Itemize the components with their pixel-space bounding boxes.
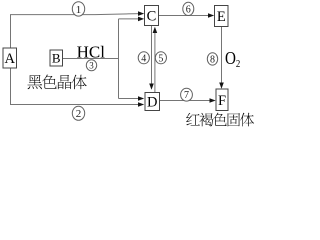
svg-text:D: D — [147, 95, 157, 111]
svg-text:HCl: HCl — [77, 42, 106, 61]
wire path3 branch to D — [119, 98, 141, 100]
node circle8 — [207, 53, 217, 65]
node circle5 — [155, 52, 166, 64]
node circle3 — [86, 60, 96, 71]
arrow into F left — [210, 98, 216, 103]
svg-text:3: 3 — [89, 61, 94, 71]
node circle6 — [183, 2, 194, 15]
wire path3 B+HCl trunk — [63, 58, 119, 60]
arrow into D upper — [138, 96, 144, 101]
node circle2 — [72, 106, 84, 120]
arrow into E — [208, 13, 214, 18]
svg-text:F: F — [218, 93, 226, 109]
wire path3 branch to C — [119, 18, 142, 20]
box C — [145, 6, 159, 26]
svg-text:7: 7 — [184, 90, 189, 101]
svg-text:4: 4 — [141, 53, 146, 64]
node circle1 — [72, 2, 84, 16]
arrow into F top — [219, 83, 224, 89]
wire path2 A-bottom to D — [11, 68, 141, 105]
box B — [50, 50, 63, 66]
box A — [3, 48, 17, 68]
svg-text:C: C — [147, 9, 157, 25]
box F — [216, 89, 228, 111]
svg-text:1: 1 — [76, 4, 82, 16]
svg-text:B: B — [52, 51, 61, 66]
arrow into D lower — [138, 102, 144, 107]
wire path8 E down to F — [221, 27, 223, 85]
wire path6 C to E — [159, 15, 211, 17]
svg-text:6: 6 — [186, 4, 191, 15]
svg-text:E: E — [217, 9, 226, 25]
arrow into C upper — [138, 11, 144, 16]
wire path4 C down to D — [151, 26, 153, 84]
label black-crystal — [28, 75, 87, 90]
node circle4 — [138, 52, 149, 64]
svg-text:8: 8 — [210, 54, 215, 65]
wire path5 D up to C — [154, 32, 156, 93]
arrow into D top — [149, 84, 154, 90]
wire path3 vertical riser — [118, 19, 120, 99]
arrow into C lower — [138, 17, 144, 22]
node circle7 — [181, 88, 193, 101]
box E — [215, 6, 229, 27]
label red-brown-solid — [186, 113, 254, 127]
svg-text:2: 2 — [76, 108, 82, 120]
wire path1 A-top to C — [11, 14, 142, 48]
svg-text:5: 5 — [158, 53, 163, 64]
svg-text:A: A — [5, 51, 16, 67]
box D — [145, 93, 160, 111]
wire path7 D to F — [160, 100, 213, 102]
arrow into C bottom — [153, 27, 158, 33]
